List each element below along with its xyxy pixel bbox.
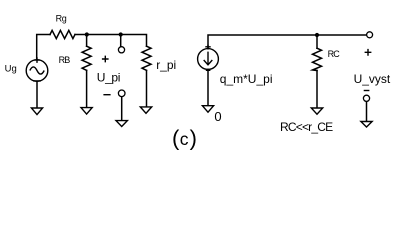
svg-text:Ug: Ug [5, 64, 17, 75]
svg-text:RC<<r_CE: RC<<r_CE [280, 120, 333, 134]
svg-text:U_vyst: U_vyst [354, 72, 391, 86]
svg-text:RC: RC [328, 49, 341, 59]
svg-text:): ) [190, 126, 197, 151]
svg-text:r_pi: r_pi [156, 58, 176, 72]
svg-text:(: ( [172, 126, 180, 151]
svg-text:0: 0 [214, 109, 221, 124]
svg-text:RB: RB [59, 55, 71, 65]
svg-text:c: c [180, 129, 189, 149]
svg-text:U_pi: U_pi [97, 70, 120, 84]
svg-text:Rg: Rg [56, 14, 67, 24]
svg-text:q_m*U_pi: q_m*U_pi [220, 72, 273, 86]
